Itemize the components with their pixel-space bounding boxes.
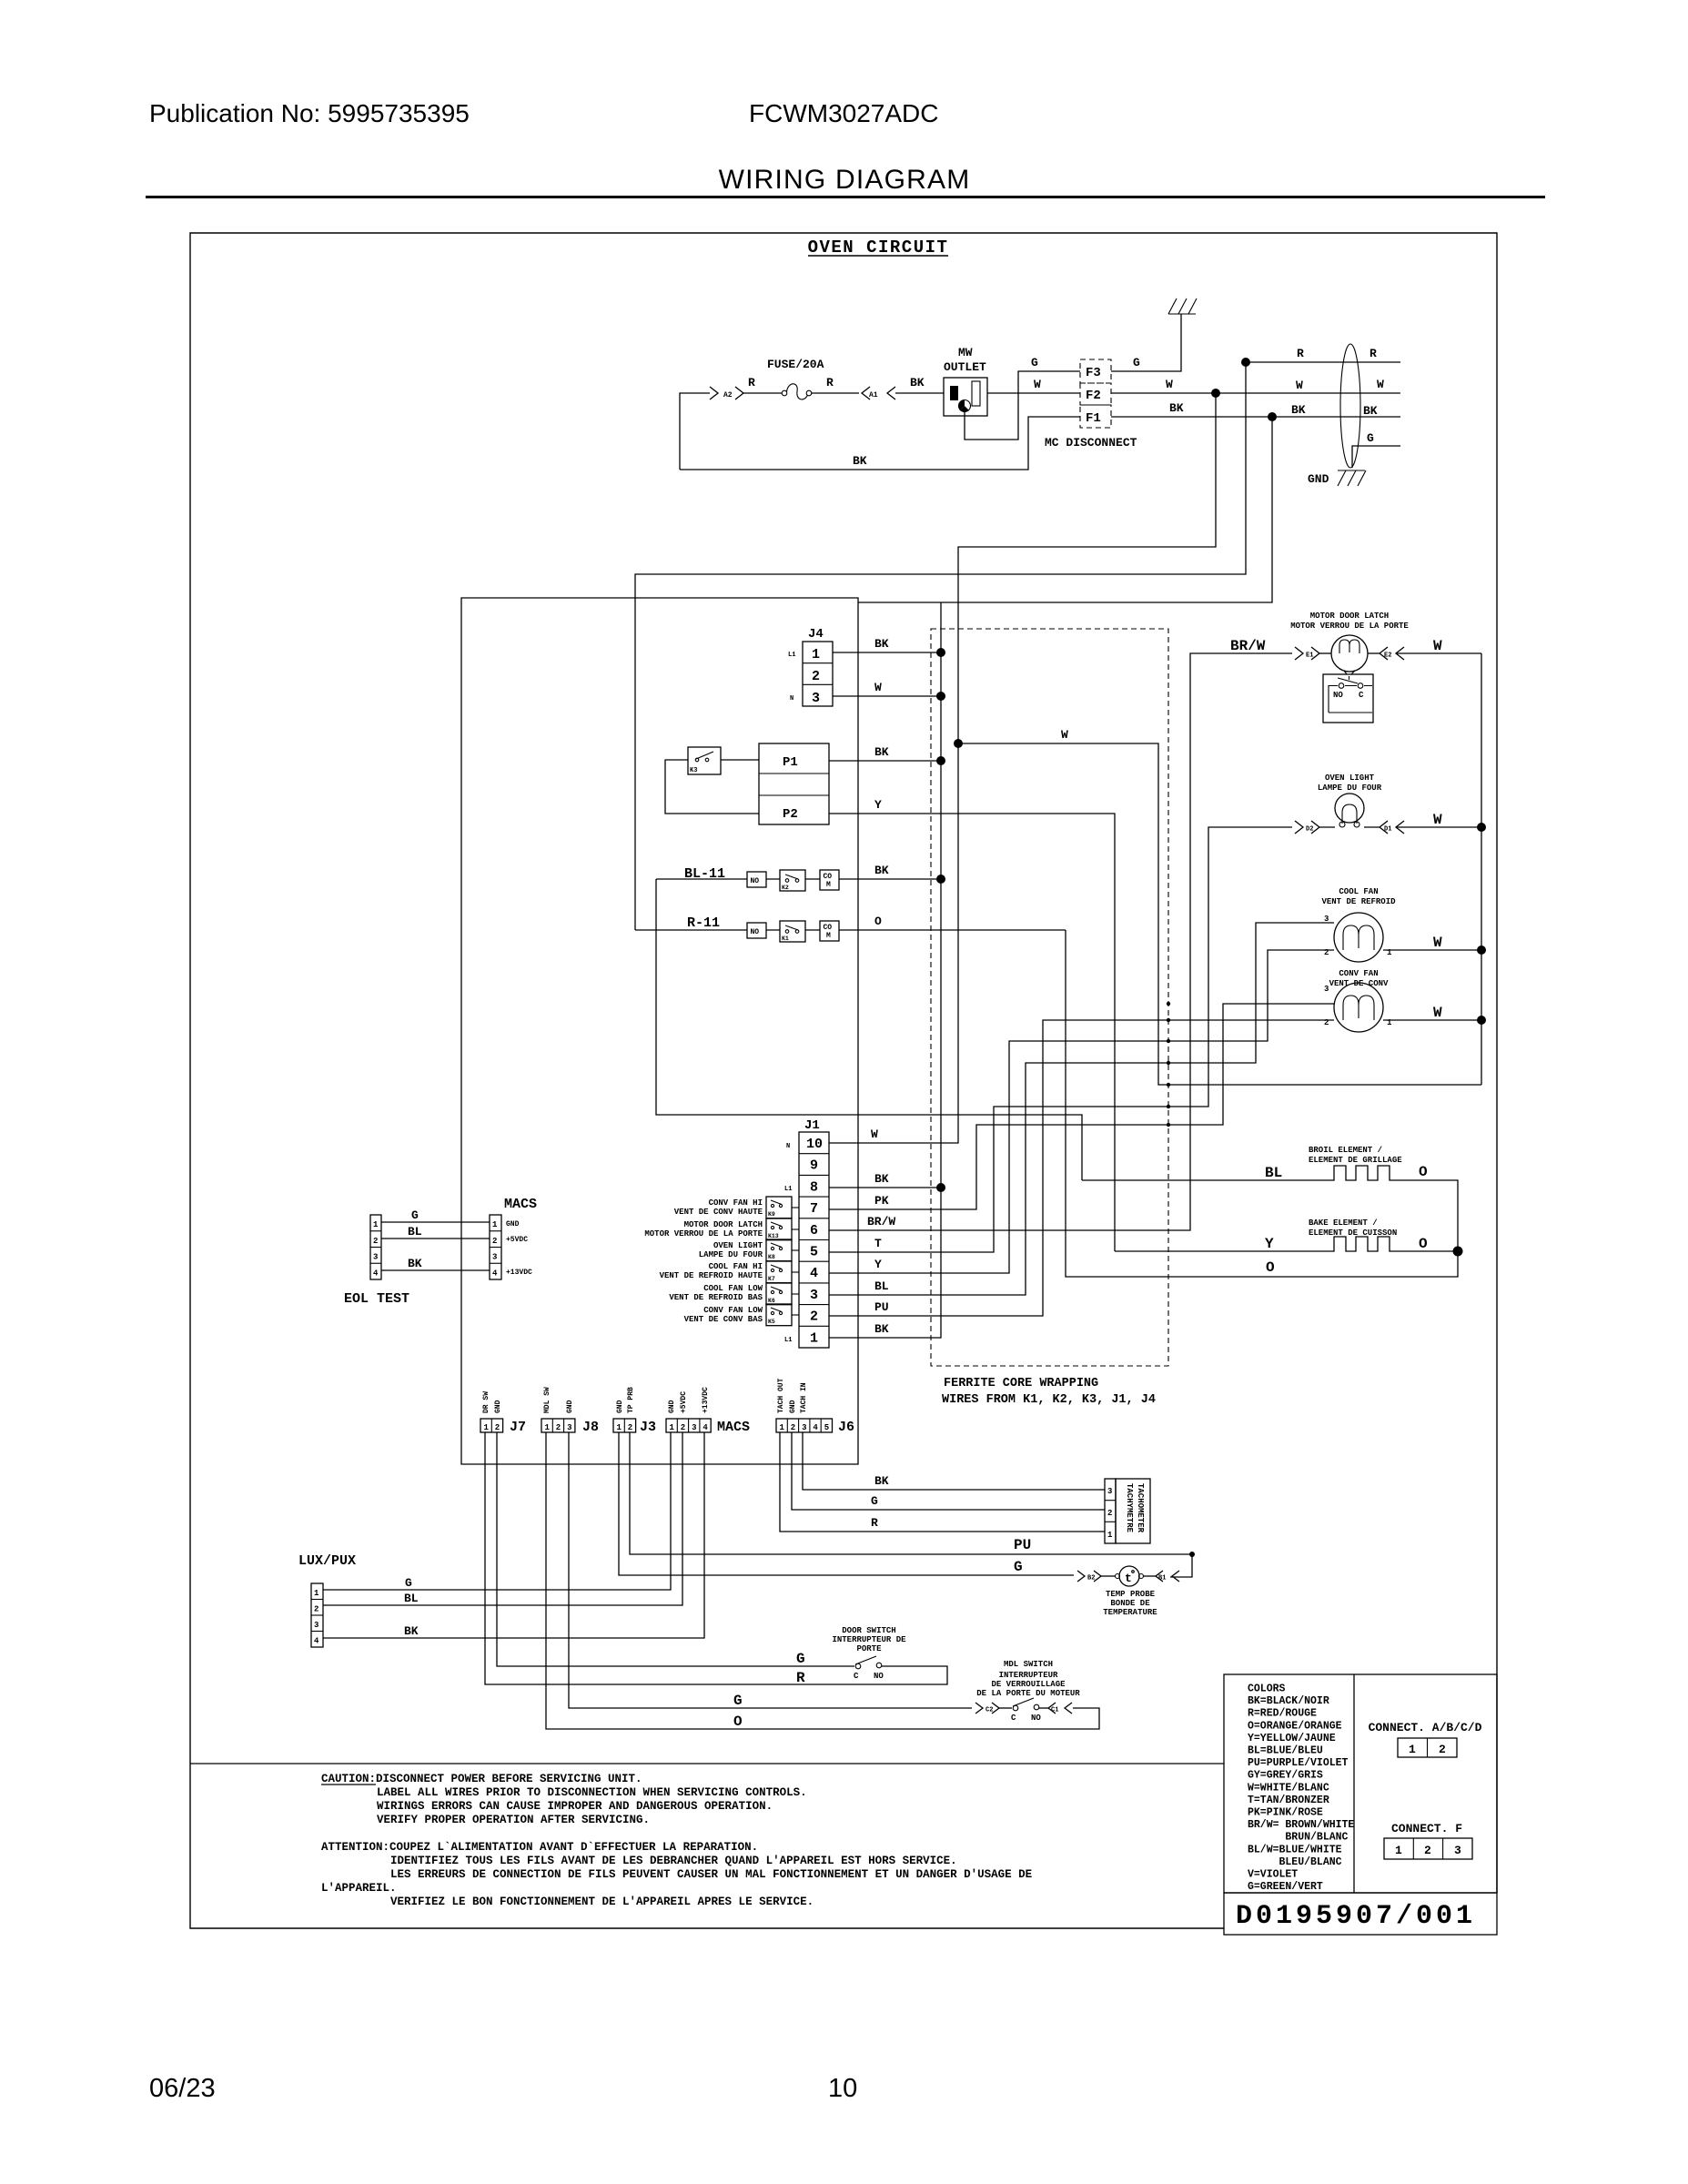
wire BL-11 left drop [656,879,1082,1180]
wire K3 to P1 [721,759,759,761]
svg-text:1: 1 [545,1423,551,1432]
svg-text:BLEU/BLANC: BLEU/BLANC [1248,1856,1342,1868]
wire BK J6-3 to tach [803,1432,1105,1490]
svg-text:W: W [874,681,882,694]
wire G J3-1 to temp probe [619,1432,1074,1575]
door switch [855,1663,861,1669]
svg-text:GND: GND [668,1400,676,1413]
svg-text:TACHYMETRE: TACHYMETRE [1125,1483,1134,1533]
svg-text:OVEN LIGHT: OVEN LIGHT [713,1241,763,1250]
svg-text:1: 1 [1107,1531,1113,1540]
svg-text:MDL SWITCH: MDL SWITCH [1004,1660,1053,1669]
node W junction [954,739,963,748]
terminal COM (K2) [820,870,839,890]
svg-text:BK: BK [1363,404,1378,418]
svg-text:+13VDC: +13VDC [702,1387,710,1413]
svg-text:Y: Y [874,1258,882,1271]
svg-text:J3: J3 [640,1420,656,1435]
svg-text:OVEN LIGHT: OVEN LIGHT [1325,773,1375,783]
svg-text:NO: NO [1333,691,1343,700]
svg-text:2: 2 [791,1423,795,1432]
connector D1 [1380,821,1404,834]
svg-text:TACHOMETER: TACHOMETER [1136,1483,1145,1533]
svg-text:LAMPE DU FOUR: LAMPE DU FOUR [699,1250,763,1259]
svg-text:3: 3 [1324,915,1329,924]
junction dots BK bus [936,648,945,657]
svg-text:VENT DE REFROID BAS: VENT DE REFROID BAS [669,1293,763,1302]
svg-text:8: 8 [810,1179,818,1195]
MDL switch [999,1707,1012,1709]
svg-text:4: 4 [810,1266,818,1281]
svg-text:BK: BK [1291,403,1306,417]
relay switch K9 [766,1197,792,1218]
svg-text:R: R [796,1670,805,1686]
svg-text:LUX/PUX: LUX/PUX [298,1553,356,1569]
svg-text:BL=BLUE/BLEU: BL=BLUE/BLEU [1248,1745,1323,1757]
svg-text:G: G [1367,431,1374,445]
svg-text:GY=GREY/GRIS: GY=GREY/GRIS [1248,1770,1323,1782]
svg-text:CO: CO [824,924,833,932]
svg-text:B1: B1 [1158,1575,1166,1582]
svg-text:G: G [411,1208,419,1222]
svg-text:BL: BL [404,1592,419,1605]
svg-text:3: 3 [802,1423,806,1432]
svg-text:+5VDC: +5VDC [506,1236,528,1244]
svg-text:F1: F1 [1086,411,1101,426]
terminal COM (K1) [820,921,839,941]
wire broil to O net [1394,1180,1458,1251]
svg-text:1: 1 [314,1589,319,1598]
relay switch K7 [766,1261,792,1283]
svg-text:D0195907/001: D0195907/001 [1236,1901,1476,1932]
junction dots power rows [1241,358,1250,367]
svg-text:2: 2 [1324,1018,1329,1027]
connector F1 [1080,405,1111,428]
wire R from A2 loop [680,393,710,470]
wire PK J1-7 to conv fan hi [829,1004,1334,1209]
svg-text:Y=YELLOW/JAUNE: Y=YELLOW/JAUNE [1248,1733,1336,1744]
svg-text:BL: BL [1265,1165,1282,1181]
wire BR/W J1-6 to motor door latch [829,653,1292,1230]
svg-text:BAKE ELEMENT /: BAKE ELEMENT / [1309,1218,1378,1228]
wire W J4-3 [833,695,941,697]
wire conv fan pin1 W [1383,1019,1481,1021]
wire G F3 to ground [1111,314,1181,371]
svg-text:BL: BL [874,1279,889,1293]
svg-text:C: C [1359,691,1364,700]
svg-text:K5: K5 [768,1319,775,1325]
connector F3 [1080,359,1111,383]
svg-text:LES ERREURS DE CONNECTION DE F: LES ERREURS DE CONNECTION DE FILS PEUVEN… [390,1868,1032,1881]
svg-text:W: W [1433,638,1442,654]
svg-text:BR/W= BROWN/WHITE: BR/W= BROWN/WHITE [1248,1819,1354,1831]
relay switch K13 [766,1218,792,1240]
svg-text:R: R [748,376,755,389]
svg-text:W: W [1433,1005,1442,1021]
svg-text:BK: BK [408,1257,422,1270]
svg-text:VENT DE CONV HAUTE: VENT DE CONV HAUTE [674,1208,763,1217]
cable bundle ellipse [1340,344,1360,468]
svg-text:ELEMENT DE GRILLAGE: ELEMENT DE GRILLAGE [1309,1156,1402,1165]
svg-text:6: 6 [810,1223,818,1239]
svg-text:3: 3 [567,1423,571,1432]
svg-text:9: 9 [810,1158,818,1174]
svg-text:GND: GND [789,1400,797,1413]
svg-text:DE VERROUILLAGE: DE VERROUILLAGE [991,1680,1066,1689]
wire R net drop [635,362,1246,930]
svg-text:BK: BK [1169,401,1184,415]
diagram border frame [190,233,1497,1928]
svg-text:PU=PURPLE/VIOLET: PU=PURPLE/VIOLET [1248,1757,1349,1769]
svg-text:NO: NO [874,1672,884,1681]
ground (top) [1168,298,1197,314]
svg-text:3: 3 [692,1423,696,1432]
svg-text:G: G [405,1576,412,1590]
svg-text:CONV FAN HI: CONV FAN HI [709,1198,763,1208]
svg-text:BR/W: BR/W [867,1215,895,1228]
svg-text:+5VDC: +5VDC [680,1391,688,1413]
wire K3 loop to P2 [665,760,759,814]
wire G EOL-1 [381,1221,490,1223]
wire broil feed [1082,1179,1329,1181]
svg-text:W: W [1034,378,1041,391]
wire R row [1246,361,1400,363]
wire W right bus [1481,653,1482,1085]
svg-text:FUSE/20A: FUSE/20A [767,358,824,371]
connector C1 [1039,1707,1048,1709]
svg-text:M: M [826,932,831,940]
svg-text:2: 2 [681,1423,685,1432]
svg-text:PK: PK [874,1194,889,1208]
svg-text:F2: F2 [1086,389,1101,403]
svg-text:CAUTION:DISCONNECT POWER BEFOR: CAUTION:DISCONNECT POWER BEFORE SERVICIN… [321,1773,642,1785]
relay K1 [780,921,805,942]
svg-text:K8: K8 [768,1254,775,1260]
relay K2 [780,870,805,891]
svg-text:R=RED/ROUGE: R=RED/ROUGE [1248,1708,1317,1720]
svg-text:1: 1 [617,1423,622,1432]
heating element bake [1329,1237,1394,1251]
svg-text:LAMPE DU FOUR: LAMPE DU FOUR [1318,784,1382,793]
svg-text:1: 1 [484,1423,490,1432]
svg-text:OVEN CIRCUIT: OVEN CIRCUIT [808,238,949,258]
svg-text:G: G [871,1494,878,1508]
svg-text:3: 3 [1454,1844,1461,1857]
svg-text:GND: GND [1308,472,1329,486]
wire O return to R-11 [1066,930,1458,1277]
svg-text:R: R [871,1516,878,1530]
svg-text:J6: J6 [838,1420,854,1435]
svg-text:BK: BK [910,376,925,389]
wire BL-11 row [656,878,941,880]
svg-text:VENT DE CONV BAS: VENT DE CONV BAS [684,1315,763,1324]
svg-text:GND: GND [494,1400,502,1413]
svg-text:F3: F3 [1086,366,1101,380]
wire Y J1-4 to cool fan [829,950,1334,1273]
svg-text:TACH IN: TACH IN [800,1382,808,1413]
svg-text:TEMPERATURE: TEMPERATURE [1103,1608,1157,1617]
svg-text:W: W [1166,378,1173,391]
svg-text:TACH OUT: TACH OUT [777,1378,785,1413]
svg-text:2: 2 [1107,1509,1112,1518]
wire T J1-5 to oven light [829,827,1292,1252]
ferrite wrap dots [1167,1002,1170,1006]
svg-text:O=ORANGE/ORANGE: O=ORANGE/ORANGE [1248,1720,1342,1732]
svg-text:O: O [733,1714,743,1730]
svg-text:BR/W: BR/W [1230,638,1266,654]
wire BK LUX-4 to MACS-4 [323,1432,704,1638]
wire W F2 row [1111,392,1400,394]
connector MACS (lower) [666,1419,711,1432]
svg-text:2: 2 [556,1423,561,1432]
svg-text:DE LA PORTE DU MOTEUR: DE LA PORTE DU MOTEUR [976,1689,1080,1698]
svg-text:DOOR SWITCH: DOOR SWITCH [842,1626,895,1635]
svg-text:BROIL ELEMENT /: BROIL ELEMENT / [1309,1146,1382,1155]
svg-text:BRUN/BLANC: BRUN/BLANC [1248,1832,1349,1844]
drawing number box [1224,1893,1497,1935]
svg-text:G: G [1031,356,1038,369]
svg-text:1: 1 [1395,1844,1402,1857]
title underline [146,196,1545,198]
svg-text:J1: J1 [804,1118,820,1133]
wire A1 to MW outlet [895,392,944,394]
svg-text:2: 2 [1439,1743,1446,1756]
svg-text:4: 4 [314,1637,319,1646]
svg-text:1: 1 [780,1423,785,1432]
relay K3 [688,747,721,774]
svg-text:MOTOR VERROU DE LA PORTE: MOTOR VERROU DE LA PORTE [1290,622,1409,631]
svg-text:BONDE DE: BONDE DE [1110,1599,1150,1608]
connector A/B/C/D [1398,1738,1457,1757]
svg-text:3: 3 [810,1288,818,1303]
svg-text:G: G [1014,1559,1023,1575]
svg-text:FCWM3027ADC: FCWM3027ADC [749,99,938,127]
svg-text:EOL TEST: EOL TEST [344,1291,409,1307]
relay block P1/P2 [759,743,829,824]
svg-text:VENT DE REFROID: VENT DE REFROID [1321,897,1396,906]
svg-text:BK: BK [874,864,889,877]
svg-text:J8: J8 [582,1420,599,1435]
svg-text:t: t [1125,1572,1132,1585]
svg-text:J7: J7 [510,1420,526,1435]
svg-text:MOTOR DOOR LATCH: MOTOR DOOR LATCH [1310,612,1389,621]
svg-text:OUTLET: OUTLET [944,360,986,374]
svg-text:MW: MW [958,346,973,359]
svg-text:E1: E1 [1306,652,1313,660]
wire G J7-2 to door switch C [497,1432,854,1666]
svg-text:K9: K9 [768,1211,775,1218]
svg-text:2: 2 [1424,1844,1431,1857]
svg-text:+13VDC: +13VDC [506,1269,532,1277]
svg-text:G: G [733,1693,743,1709]
svg-text:7: 7 [810,1201,818,1217]
svg-text:C2: C2 [986,1707,993,1714]
svg-text:DR SW: DR SW [482,1391,490,1413]
svg-text:BK: BK [853,454,867,468]
connector F2 [1080,383,1111,405]
svg-text:L1: L1 [784,1337,792,1344]
svg-text:W: W [1433,812,1442,828]
wire BK P1 out [829,760,941,762]
connector D2 [1295,821,1319,834]
svg-text:J4: J4 [808,627,824,642]
connector A2 [710,387,743,399]
heating element broil [1329,1166,1394,1180]
svg-text:3: 3 [373,1253,378,1262]
control board outline box [461,598,858,1464]
wire BK J4-1 [833,652,941,653]
svg-text:1: 1 [810,1330,818,1346]
svg-text:CONNECT. F: CONNECT. F [1391,1822,1462,1835]
svg-text:CONNECT. A/B/C/D: CONNECT. A/B/C/D [1369,1721,1482,1734]
svg-text:N: N [790,695,793,703]
svg-text:G: G [796,1651,805,1667]
svg-text:K7: K7 [768,1276,775,1282]
svg-text:COOL FAN: COOL FAN [1339,887,1378,896]
svg-text:2: 2 [810,1309,818,1325]
wire G J6-2 to tach [792,1432,1105,1510]
svg-text:BK: BK [404,1624,419,1638]
svg-text:5: 5 [824,1423,829,1432]
svg-text:5: 5 [810,1245,818,1260]
wire R J7-1 to door switch NO [485,1432,947,1684]
svg-text:1: 1 [812,647,820,662]
svg-text:FERRITE CORE WRAPPING: FERRITE CORE WRAPPING [944,1377,1098,1390]
wire W to right loop [958,743,1481,1085]
wire bake to O junction [1394,1250,1458,1252]
svg-text:C1: C1 [1051,1707,1058,1714]
svg-text:G=GREEN/VERT: G=GREEN/VERT [1248,1881,1323,1893]
door latch switch assembly [1344,671,1355,674]
svg-text:R: R [1297,347,1304,360]
wire BL LUX-2 to MACS-2 [323,1432,682,1605]
svg-text:COOL FAN LOW: COOL FAN LOW [703,1284,763,1293]
svg-text:06/23: 06/23 [149,2074,216,2103]
connector EOL TEST [370,1215,381,1279]
svg-text:COOL FAN HI: COOL FAN HI [709,1262,763,1271]
svg-text:A1: A1 [869,391,878,399]
svg-text:BK: BK [874,745,889,759]
svg-text:W: W [1061,728,1068,742]
svg-text:O: O [1419,1236,1428,1252]
svg-text:VERIFY PROPER OPERATION AFTER: VERIFY PROPER OPERATION AFTER SERVICING. [377,1814,650,1826]
svg-text:10: 10 [828,2074,857,2103]
svg-text:2: 2 [812,669,820,684]
svg-text:VENT DE REFROID HAUTE: VENT DE REFROID HAUTE [660,1271,763,1280]
colors legend box [1224,1674,1497,1893]
motor conv fan [1334,983,1383,1032]
svg-text:MACS: MACS [717,1420,750,1435]
svg-text:VENT DE CONV: VENT DE CONV [1329,979,1389,988]
wire bake feed [1115,1250,1329,1252]
svg-text:L'APPAREIL.: L'APPAREIL. [321,1882,397,1895]
wire BL J1-3 to cool fan [829,923,1334,1295]
svg-text:INTERRUPTEUR DE: INTERRUPTEUR DE [832,1635,906,1644]
svg-text:D2: D2 [1306,826,1313,834]
svg-text:BK=BLACK/NOIR: BK=BLACK/NOIR [1248,1695,1329,1707]
svg-text:T: T [874,1237,882,1250]
svg-text:A2: A2 [723,391,733,399]
svg-text:W: W [871,1127,878,1141]
svg-text:4: 4 [813,1423,818,1432]
svg-text:L1: L1 [784,1186,792,1193]
svg-text:2: 2 [1324,948,1329,957]
wire G row to gnd [1352,446,1400,468]
svg-text:TP PRB: TP PRB [627,1387,635,1413]
svg-text:2: 2 [492,1237,497,1246]
wire W net drop [958,393,1216,743]
svg-text:NO: NO [751,877,760,885]
svg-text:M: M [826,881,831,889]
wire W E2 to bus [1368,652,1380,654]
connector F [1384,1838,1472,1859]
wire PU J3-2 to temp probe [630,1432,1192,1577]
wire cool fan pin1 W [1383,949,1481,951]
temp probe sensor [1101,1575,1115,1577]
connector J3 [613,1419,636,1432]
wire R-11 row [635,929,1066,931]
wire BK L1 net drop [858,417,1272,602]
svg-text:LABEL ALL WIRES PRIOR TO DISCO: LABEL ALL WIRES PRIOR TO DISCONNECTION W… [377,1786,807,1799]
svg-text:L1: L1 [788,652,795,659]
svg-text:MOTOR DOOR LATCH: MOTOR DOOR LATCH [684,1220,763,1229]
svg-text:MOTOR VERROU DE LA PORTE: MOTOR VERROU DE LA PORTE [644,1229,763,1239]
svg-text:R: R [826,376,834,389]
svg-text:1: 1 [1409,1743,1416,1756]
wire BK F1 row [1111,416,1400,418]
svg-text:4: 4 [492,1269,498,1278]
svg-text:WIRINGS ERRORS CAN CAUSE IMPRO: WIRINGS ERRORS CAN CAUSE IMPROPER AND DA… [377,1800,773,1813]
svg-text:G: G [1133,356,1140,369]
svg-text:T=TAN/BRONZER: T=TAN/BRONZER [1248,1795,1329,1806]
svg-text:4: 4 [373,1269,379,1278]
svg-text:BK: BK [874,1322,889,1336]
svg-text:Y: Y [1265,1236,1274,1252]
svg-text:K6: K6 [768,1298,775,1304]
connector E2 [1380,647,1404,660]
caution separator line [190,1763,1224,1764]
svg-text:BL: BL [408,1225,422,1239]
svg-text:Y: Y [874,798,882,812]
svg-text:3: 3 [492,1253,497,1262]
wire O J8-1 to MDL C1 [546,1432,1099,1729]
connector B2 [1077,1571,1101,1582]
wire G J8-3 to MDL C2 [569,1432,972,1708]
svg-text:C: C [854,1672,859,1681]
svg-text:BK: BK [874,1172,889,1186]
svg-text:PU: PU [874,1300,889,1314]
svg-text:3: 3 [812,691,820,706]
wire to fuse [743,392,782,394]
svg-text:PORTE: PORTE [856,1644,882,1653]
motor M1 door latch [1319,652,1331,654]
wire fuse to A1 [812,392,859,394]
svg-text:D1: D1 [1384,826,1391,834]
svg-text:CONV FAN LOW: CONV FAN LOW [703,1306,763,1315]
svg-text:P1: P1 [783,755,798,770]
svg-text:MDL SW: MDL SW [543,1387,551,1413]
svg-text:E2: E2 [1384,652,1391,660]
svg-text:4: 4 [702,1423,708,1432]
svg-text:O: O [874,915,882,928]
svg-text:C: C [1011,1714,1016,1723]
svg-text:NO: NO [751,928,760,936]
svg-text:Publication No: 5995735395: Publication No: 5995735395 [149,99,470,127]
connector J8 [541,1419,575,1432]
svg-text:V=VIOLET: V=VIOLET [1248,1869,1298,1881]
wire W D1 to bus [1364,826,1380,828]
connector E1 [1295,647,1319,660]
